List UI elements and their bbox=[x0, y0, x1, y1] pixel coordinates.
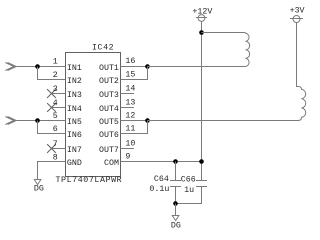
wire : COM pin 9 to +12V rail bbox=[121, 161, 202, 163]
svg-text:12: 12 bbox=[125, 111, 135, 120]
svg-text:6: 6 bbox=[53, 125, 58, 134]
inductor L1 : relay coil at +12V bbox=[148, 33, 250, 67]
wire : input B horizontal to pin 5 bbox=[16, 120, 65, 122]
wire : +12V stem down rail bbox=[201, 21, 203, 180]
svg-text:5: 5 bbox=[53, 112, 58, 121]
wire : pin 15 stub and tie up bbox=[121, 67, 148, 80]
svg-text:OUT2: OUT2 bbox=[99, 77, 119, 86]
wire : ground stem bbox=[175, 204, 177, 216]
no-connect X pin 3 bbox=[47, 89, 56, 98]
node C64top : junction dot on COM wire bbox=[173, 159, 178, 164]
no-connect X pin 4 bbox=[47, 103, 56, 112]
svg-text:GND: GND bbox=[67, 159, 82, 168]
wire : input B branch down to pin 6 bbox=[38, 121, 66, 134]
node P12 : junction dot to coil L1 bbox=[199, 30, 204, 35]
svg-text:OUT7: OUT7 bbox=[99, 146, 119, 155]
wire : input A branch down to pin 2 bbox=[38, 67, 66, 80]
svg-text:COM: COM bbox=[104, 159, 119, 168]
svg-text:1: 1 bbox=[53, 58, 58, 67]
svg-text:IN6: IN6 bbox=[67, 131, 82, 140]
svg-text:16: 16 bbox=[125, 57, 135, 66]
svg-text:DG: DG bbox=[171, 222, 181, 231]
svg-text:+3V: +3V bbox=[290, 7, 305, 16]
op-amp U1 : IC42 driver box body bbox=[66, 53, 121, 177]
node B : junction dot input B bbox=[35, 118, 40, 123]
node OUT12 : junction dot bbox=[145, 64, 150, 69]
capacitor C64 bbox=[170, 162, 181, 204]
svg-text:2: 2 bbox=[53, 71, 58, 80]
wire : pin 11 stub and tie up bbox=[121, 121, 148, 134]
svg-text:IN7: IN7 bbox=[67, 146, 82, 155]
svg-text:0.1u: 0.1u bbox=[149, 185, 169, 194]
svg-text:11: 11 bbox=[125, 124, 135, 133]
svg-text:OUT1: OUT1 bbox=[99, 64, 119, 73]
ground DG left triangle bbox=[34, 180, 41, 185]
svg-text:IN5: IN5 bbox=[67, 118, 82, 127]
node OUT56 : junction dot bbox=[145, 118, 150, 123]
svg-text:OUT4: OUT4 bbox=[99, 105, 119, 114]
svg-text:IC42: IC42 bbox=[92, 44, 114, 53]
node P12C : junction dot +12V rail meets COM wire bbox=[199, 159, 204, 164]
wire : pin 4 stub bbox=[52, 107, 66, 109]
node IN_B : off-page connector chevron bbox=[5, 117, 16, 125]
svg-text:4: 4 bbox=[53, 99, 58, 108]
wire : input A horizontal to pin 1 bbox=[16, 66, 65, 68]
power +3V symbol bbox=[290, 16, 303, 23]
wire : pin 14 stub bbox=[121, 93, 135, 95]
svg-text:OUT6: OUT6 bbox=[99, 131, 119, 140]
wire : pin 10 stub bbox=[121, 148, 135, 150]
wire : pin 7 stub bbox=[52, 148, 66, 150]
svg-text:IN1: IN1 bbox=[67, 64, 82, 73]
svg-text:1u: 1u bbox=[184, 186, 194, 195]
svg-text:C64: C64 bbox=[154, 175, 169, 184]
svg-text:C66: C66 bbox=[181, 176, 196, 185]
wire : pin 16 stub to junction bbox=[121, 66, 148, 68]
svg-text:DG: DG bbox=[34, 185, 44, 194]
svg-text:+12V: +12V bbox=[192, 7, 212, 16]
wire : GND pin 8 to ground bbox=[38, 162, 66, 180]
svg-text:8: 8 bbox=[53, 154, 58, 163]
svg-text:3: 3 bbox=[53, 85, 58, 94]
svg-text:IN4: IN4 bbox=[67, 105, 82, 114]
capacitor C66 bbox=[176, 181, 208, 204]
svg-text:IN2: IN2 bbox=[67, 77, 82, 86]
node GNDC : junction dot ground node bbox=[173, 201, 178, 206]
svg-text:OUT3: OUT3 bbox=[99, 91, 119, 100]
wire : pin 3 stub bbox=[52, 93, 66, 95]
no-connect X pin 7 bbox=[47, 144, 56, 153]
svg-text:7: 7 bbox=[53, 140, 58, 149]
node IN_A : off-page connector chevron bbox=[5, 63, 16, 71]
svg-text:IN3: IN3 bbox=[67, 91, 82, 100]
inductor L2 : relay coil at +3V bbox=[148, 23, 306, 121]
wire : pin 13 stub bbox=[121, 107, 135, 109]
node A : junction dot input A bbox=[35, 64, 40, 69]
svg-text:OUT5: OUT5 bbox=[99, 118, 119, 127]
svg-text:14: 14 bbox=[125, 84, 135, 93]
svg-text:15: 15 bbox=[125, 70, 135, 79]
svg-text:TPL7407LAPWR: TPL7407LAPWR bbox=[56, 176, 123, 185]
svg-text:13: 13 bbox=[125, 98, 135, 107]
svg-text:10: 10 bbox=[125, 139, 135, 148]
wire : pin 12 stub to junction bbox=[121, 120, 148, 122]
svg-text:9: 9 bbox=[125, 152, 130, 161]
power +12V symbol bbox=[196, 15, 207, 22]
ground DG bottom triangle bbox=[172, 216, 179, 221]
